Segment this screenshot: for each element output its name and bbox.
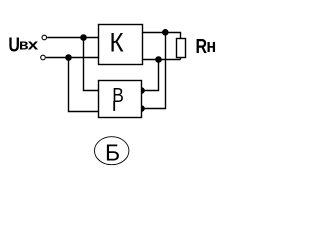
wire output top [143,33,181,40]
wire feedback left lower (beta out to J2) [69,58,100,112]
node J6 at beta right lower [138,105,145,112]
node J3 on top output wire [162,29,169,36]
label Uвх [8,34,39,56]
wire input bottom [46,57,99,59]
node J4 on bottom output wire [155,56,162,63]
wire feedback left upper (beta out to J1) [84,38,100,91]
resistor Rn [177,39,186,58]
terminal input bottom [41,55,46,60]
svg-text:Б: Б [105,139,120,165]
node J5 at beta right upper [138,87,145,94]
svg-text:К: К [110,28,124,57]
terminal input top [42,35,47,40]
wire input top [47,37,99,39]
amplifier block K [99,25,143,65]
svg-text:R: R [196,35,208,57]
svg-text:х: х [28,37,39,53]
node J2 on bottom input wire [65,54,72,61]
wire resistor bottom lead [180,58,182,60]
wire feedback right upper (J4 down to beta) [141,60,159,91]
wire output bottom [143,59,181,61]
label beta (B bowls + stem) [112,84,124,111]
node J1 on top input wire [80,34,87,41]
svg-text:н: н [206,35,216,56]
figure label circle [95,137,129,165]
wire feedback right lower (J3 down to beta) [141,33,166,109]
feedback block beta [99,81,142,118]
